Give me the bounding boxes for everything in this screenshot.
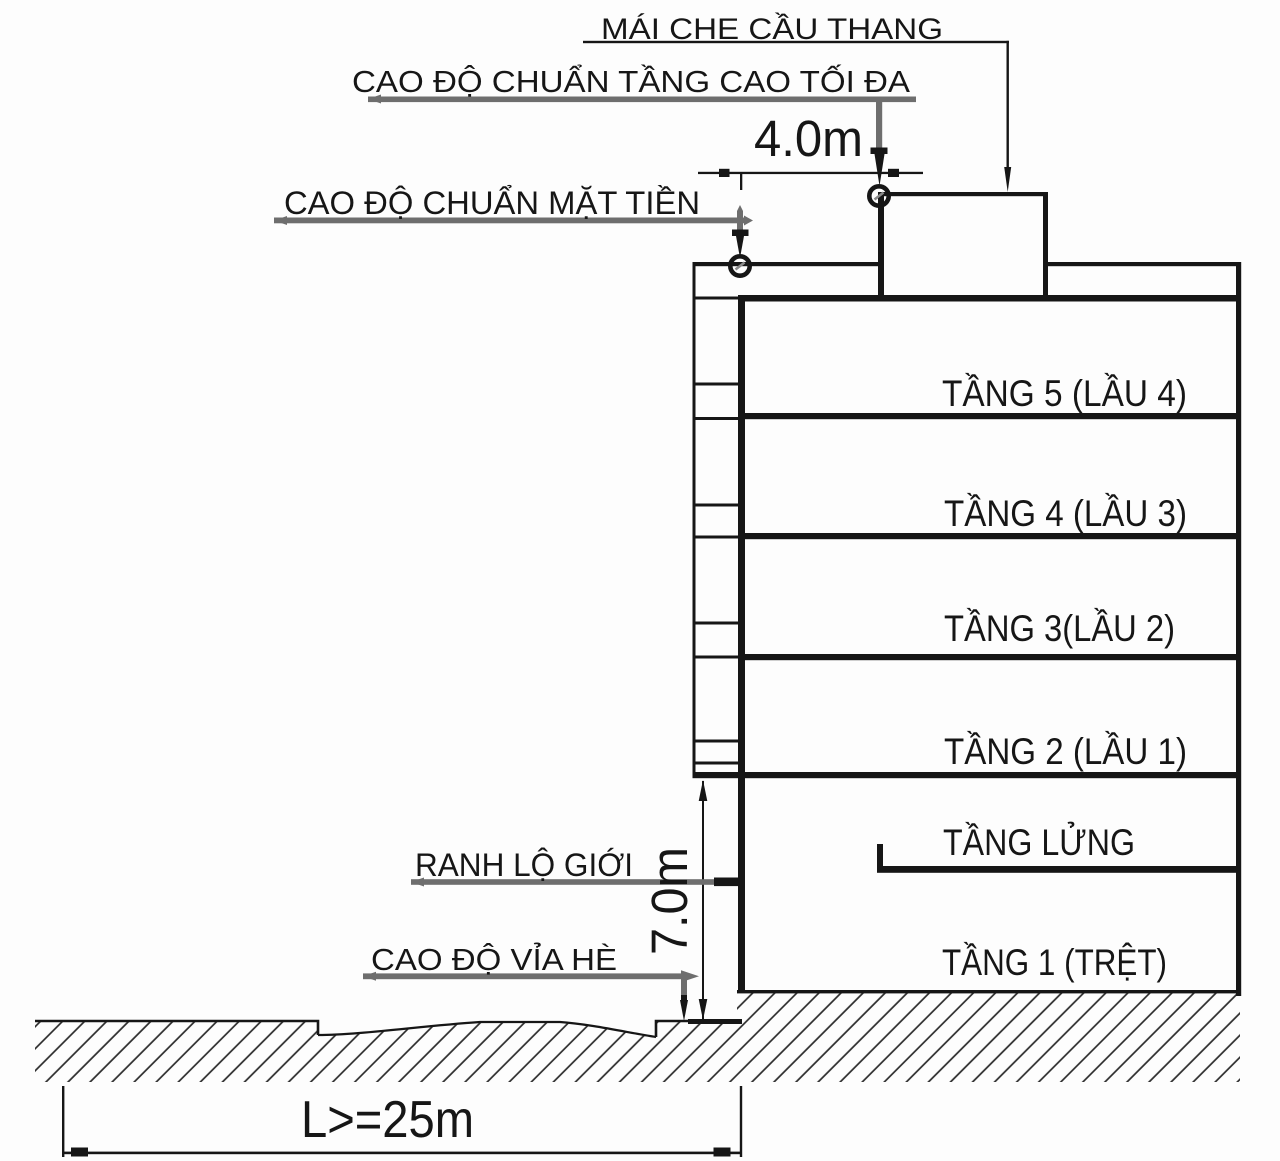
leader RANH LO GIOI black tick [714,878,738,887]
leader MAT TIEN right arrow wedge [744,216,753,226]
svg-text:4.0m: 4.0m [754,110,863,167]
thick sidewalk bar at building base [688,1019,742,1024]
svg-text:TẦNG 2 (LẦU 1): TẦNG 2 (LẦU 1) [944,731,1187,772]
leader RANH LO GIOI gray underline [411,879,714,885]
leader VIA HE gray vertical [681,977,687,1002]
leader VIA HE gray underline [363,973,681,979]
4.0m left tick [719,169,730,177]
L>=25m dimension line [62,1152,742,1155]
leader TOI DA left arrow wedge [368,95,381,104]
leader MAT TIEN gray underline [274,218,744,224]
leader VIA HE left arrow wedge [363,972,376,981]
4.0m right tick [888,169,899,177]
leader MAI CHE vertical [1007,41,1009,169]
ground line under building [737,990,1240,993]
floor slab line level 2 / strip bottom [693,772,1239,778]
floor slab line level 5 [741,413,1238,419]
L>=25m left tick [71,1148,88,1157]
svg-text:TẦNG 4 (LẦU 3): TẦNG 4 (LẦU 3) [944,493,1187,534]
strip thin line at level3 slab [693,656,741,659]
strip rung above level3 slab [693,622,741,625]
roof band bottom thin segment in strip [693,297,741,300]
leader MAI CHE arrowhead [1004,167,1011,192]
svg-text:MÁI CHE CẦU THANG: MÁI CHE CẦU THANG [601,12,943,46]
7.0m dimension vertical line [702,781,704,1020]
strip rung above level4 slab [693,504,741,507]
leader MAI CHE underline [583,41,1009,43]
7.0m bottom arrow [699,999,708,1020]
stair cover box left edge [878,192,884,298]
datum circle at roof front corner [730,256,749,275]
floor slab line level 3 [741,654,1238,660]
roof band bottom thick line [738,295,1241,302]
leader TOI DA gray vertical [876,99,882,151]
L>=25m right extension line [740,1086,742,1157]
leader TOI DA gray underline [368,97,916,103]
strip rung above level2 slab [693,740,741,743]
stair cover box top edge [878,192,1048,196]
svg-text:TẦNG 3(LẦU 2): TẦNG 3(LẦU 2) [944,608,1175,649]
svg-text:CAO ĐỘ CHUẨN MẶT TIỀN: CAO ĐỘ CHUẨN MẶT TIỀN [284,185,700,221]
main front wall [738,295,745,991]
ground surface line left sidewalk [35,1021,318,1035]
4.0m extension drop [740,174,742,190]
roof top line left of stair box [693,262,879,266]
strip thin line at level5 slab [693,417,741,420]
leader RANH LO GIOI left arrow wedge [411,878,424,887]
building left facade strip outer edge [693,262,696,776]
L>=25m left extension line [62,1086,64,1157]
right wall [1236,262,1241,996]
road surface curve [318,1022,656,1037]
7.0m top arrow [699,780,708,801]
mezzanine floor line [877,866,1240,873]
stair cover box right edge [1043,192,1048,298]
mezzanine hook vertical [877,844,883,872]
leader MAT TIEN black arrow [732,230,749,237]
svg-text:TẦNG LỬNG: TẦNG LỬNG [943,821,1135,863]
svg-text:L>=25m: L>=25m [301,1091,474,1149]
leader TOI DA black arrow [871,148,888,155]
strip thin line at level4 slab [693,536,741,539]
L>=25m right tick [714,1148,731,1157]
leader VIA HE black down arrow [680,1000,688,1021]
svg-text:TẦNG 1 (TRỆT): TẦNG 1 (TRỆT) [942,942,1167,983]
sidewalk step and right sidewalk [656,1021,688,1037]
svg-text:CAO ĐỘ CHUẨN TẦNG CAO TỐI ĐA: CAO ĐỘ CHUẨN TẦNG CAO TỐI ĐA [352,63,910,99]
leader VIA HE right arrow [681,970,699,982]
svg-text:RANH LỘ GIỚI: RANH LỘ GIỚI [415,847,633,883]
roof top line right of stair box [1045,262,1241,266]
datum circle at stair box corner [869,186,888,205]
leader MAT TIEN gray vertical with tip [737,205,743,233]
svg-text:7.0m: 7.0m [641,847,698,955]
strip rung above level5 slab [693,383,741,386]
floor slab line level 4 [741,533,1238,539]
leader MAT TIEN left arrow wedge [274,216,287,225]
4.0m dimension line [698,172,923,174]
ground hatched section [35,992,1240,1082]
strip rung low [693,762,741,765]
svg-text:CAO ĐỘ VỈA HÈ: CAO ĐỘ VỈA HÈ [371,942,617,977]
svg-text:TẦNG 5 (LẦU 4): TẦNG 5 (LẦU 4) [942,373,1187,414]
